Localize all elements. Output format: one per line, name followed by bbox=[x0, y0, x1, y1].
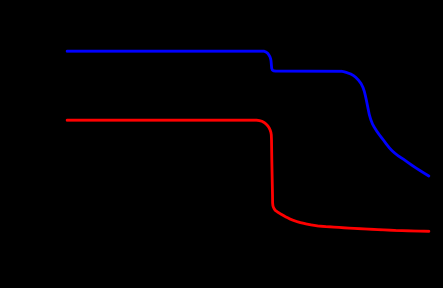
red curve bbox=[67, 120, 429, 231]
blue curve bbox=[67, 51, 429, 176]
